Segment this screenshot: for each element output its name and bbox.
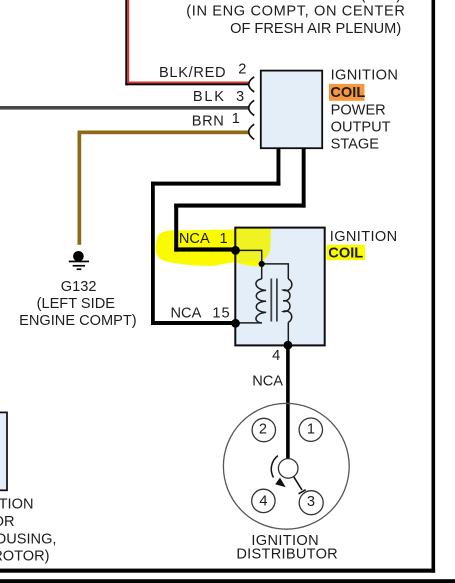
svg-text:(IN ENG COMPT, ON CENTER: (IN ENG COMPT, ON CENTER xyxy=(186,4,405,20)
svg-text:COIL: COIL xyxy=(330,85,365,101)
svg-text:1: 1 xyxy=(219,231,227,247)
svg-text:2: 2 xyxy=(238,62,246,78)
svg-text:BEHIND ROTOR): BEHIND ROTOR) xyxy=(0,549,50,565)
svg-text:CAMSHAFT POSITION: CAMSHAFT POSITION xyxy=(0,497,34,513)
svg-text:(IN DISTRIBUTOR HOUSING,: (IN DISTRIBUTOR HOUSING, xyxy=(0,531,57,547)
svg-text:STAGE: STAGE xyxy=(331,137,380,153)
svg-text:3: 3 xyxy=(307,494,315,510)
svg-text:BLK/RED: BLK/RED xyxy=(159,65,226,81)
svg-text:SENSOR: SENSOR xyxy=(0,514,15,530)
svg-text:(LEFT SIDE: (LEFT SIDE xyxy=(37,296,116,312)
svg-text:NCA: NCA xyxy=(179,231,210,247)
svg-text:POWER: POWER xyxy=(331,102,386,118)
svg-text:1: 1 xyxy=(307,421,315,437)
svg-text:NCA: NCA xyxy=(252,374,283,390)
svg-text:COIL: COIL xyxy=(328,246,363,262)
svg-text:BLK: BLK xyxy=(193,89,226,105)
svg-text:DISTRIBUTOR: DISTRIBUTOR xyxy=(236,547,338,563)
svg-text:15: 15 xyxy=(212,306,230,322)
svg-text:4: 4 xyxy=(272,348,280,364)
svg-text:NCA: NCA xyxy=(171,306,202,322)
svg-text:ENGINE COMPT): ENGINE COMPT) xyxy=(19,313,137,329)
svg-text:1: 1 xyxy=(232,111,240,127)
svg-text:4: 4 xyxy=(259,493,267,509)
svg-text:IGNITION: IGNITION xyxy=(330,229,398,245)
svg-text:2: 2 xyxy=(259,422,267,438)
svg-text:BRN: BRN xyxy=(192,113,225,129)
svg-text:3: 3 xyxy=(236,89,244,105)
svg-text:G132: G132 xyxy=(61,279,97,295)
svg-text:OUTPUT: OUTPUT xyxy=(331,120,391,136)
svg-text:IGNITION: IGNITION xyxy=(331,68,399,84)
svg-text:OF FRESH AIR PLENUM): OF FRESH AIR PLENUM) xyxy=(230,21,401,37)
